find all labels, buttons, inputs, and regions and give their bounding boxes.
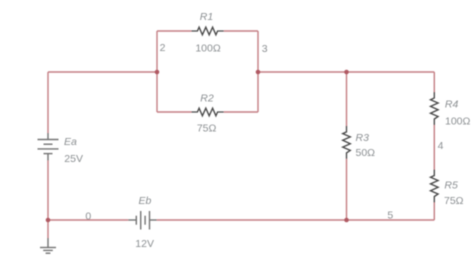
svg-text:2: 2 — [160, 42, 166, 54]
svg-text:5: 5 — [387, 210, 393, 222]
wire — [224, 30, 258, 32]
wire — [224, 111, 258, 113]
svg-text:Ea: Ea — [64, 136, 77, 148]
wire — [258, 71, 434, 73]
resistor R4 — [431, 92, 439, 125]
wire — [346, 72, 348, 126]
junction node 3 / R3 top — [344, 70, 349, 75]
wire — [433, 125, 435, 170]
resistor R3 — [343, 126, 351, 159]
svg-text:0: 0 — [85, 210, 91, 222]
battery Eb — [128, 211, 156, 230]
resistor R5 — [431, 170, 439, 203]
wire — [346, 159, 348, 220]
wire — [48, 219, 128, 221]
wire — [157, 111, 191, 113]
resistor R2 — [191, 108, 223, 116]
battery Ea — [38, 133, 59, 161]
wire — [156, 31, 158, 112]
svg-text:R4: R4 — [445, 99, 459, 111]
wire — [257, 31, 259, 112]
wire — [433, 72, 435, 92]
svg-text:100Ω: 100Ω — [445, 116, 471, 128]
wire — [47, 161, 49, 221]
svg-text:75Ω: 75Ω — [444, 195, 464, 207]
wire — [47, 72, 49, 133]
wire — [47, 220, 49, 238]
svg-text:R3: R3 — [356, 132, 370, 144]
junction node 2 — [155, 70, 160, 75]
svg-text:Eb: Eb — [139, 195, 152, 207]
resistor R1 — [191, 27, 223, 35]
svg-text:R1: R1 — [200, 11, 213, 23]
svg-text:R2: R2 — [200, 93, 214, 105]
ground — [40, 238, 56, 253]
svg-text:3: 3 — [262, 43, 268, 55]
junction node 5 / R3 bottom — [344, 218, 349, 223]
svg-text:R5: R5 — [444, 180, 458, 192]
wire — [48, 71, 157, 73]
wire — [433, 203, 435, 221]
svg-text:4: 4 — [438, 140, 444, 152]
wire — [157, 219, 435, 221]
svg-text:12V: 12V — [135, 238, 154, 250]
svg-text:25V: 25V — [64, 153, 83, 165]
svg-text:50Ω: 50Ω — [356, 147, 376, 159]
junction node 0 — [46, 218, 51, 223]
svg-text:75Ω: 75Ω — [197, 123, 217, 135]
wire — [157, 30, 191, 32]
junction node 3 — [256, 70, 261, 75]
svg-text:100Ω: 100Ω — [195, 43, 221, 55]
